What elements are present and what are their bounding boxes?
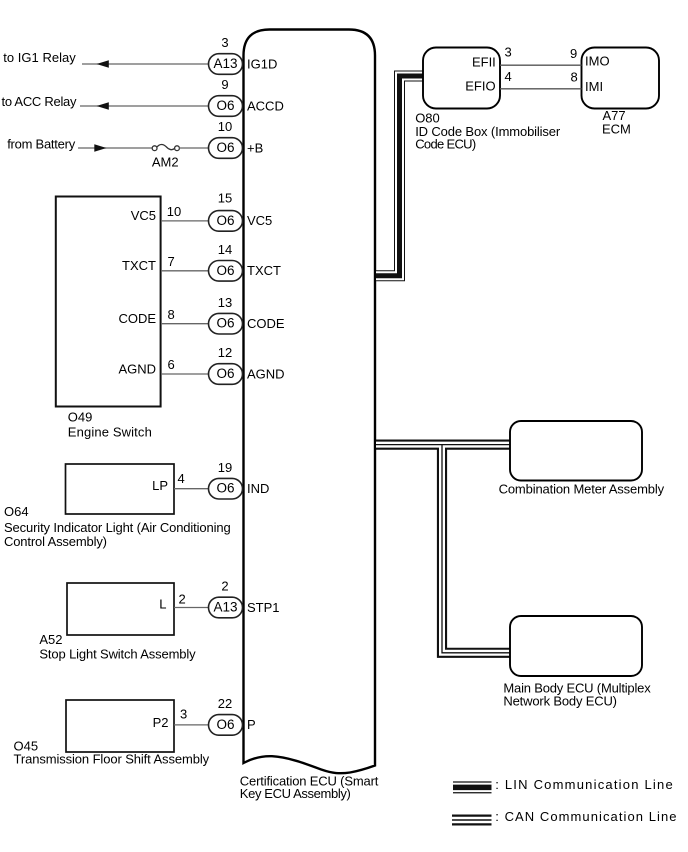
arrow to IG1 Relay (points left) — [97, 60, 109, 67]
svg-text:IND: IND — [247, 481, 269, 496]
svg-text:CODE: CODE — [118, 311, 156, 326]
connector O6 pin 10 (+B) — [209, 138, 243, 159]
svg-text:to ACC Relay: to ACC Relay — [2, 94, 78, 109]
wire EFIO to IMI — [500, 88, 582, 90]
connector O6 pin 22 (P) — [209, 715, 243, 736]
svg-text:O6: O6 — [216, 140, 234, 155]
svg-text:12: 12 — [218, 345, 232, 360]
svg-text:IMO: IMO — [585, 54, 610, 69]
svg-text:Security Indicator Light (Air: Security Indicator Light (Air Conditioni… — [4, 520, 231, 535]
svg-text:2: 2 — [179, 592, 186, 607]
legend LIN swatch: outer black — [453, 781, 492, 793]
svg-text:O6: O6 — [216, 98, 234, 113]
wire CODE — [161, 323, 209, 325]
wire VC5 — [161, 220, 209, 222]
connector O6 pin 14 (TXCT) — [209, 261, 243, 282]
legend LIN swatch: white gap — [453, 783, 492, 793]
svg-text:A13: A13 — [213, 56, 237, 71]
svg-text:10: 10 — [218, 119, 232, 134]
svg-text:O6: O6 — [216, 366, 234, 381]
connector O6 pin 19 (IND) — [209, 478, 243, 499]
svg-text:6: 6 — [168, 357, 175, 372]
svg-text:Key ECU Assembly): Key ECU Assembly) — [240, 786, 351, 801]
svg-text:A13: A13 — [213, 600, 237, 615]
ECU A77 ECM body — [582, 48, 660, 109]
svg-text:O6: O6 — [216, 316, 234, 331]
svg-text:L: L — [159, 597, 166, 612]
svg-text:AGND: AGND — [247, 366, 285, 381]
wire TXCT — [161, 270, 209, 272]
fuse AM2 element — [157, 144, 175, 149]
svg-text:VC5: VC5 — [247, 213, 272, 228]
svg-text:Stop Light Switch Assembly: Stop Light Switch Assembly — [39, 647, 196, 662]
svg-text:ACCD: ACCD — [247, 98, 284, 113]
svg-text:AGND: AGND — [118, 361, 156, 376]
wire LIN bus: center bar — [376, 76, 426, 276]
wire LIN bus: white gap — [376, 76, 426, 276]
wire fuse to +B connector — [179, 147, 208, 149]
svg-text:A52: A52 — [39, 632, 62, 647]
svg-text:AM2: AM2 — [152, 154, 179, 169]
legend LIN swatch: center bar — [453, 785, 492, 791]
svg-text:ECM: ECM — [602, 122, 631, 137]
svg-text:to IG1 Relay: to IG1 Relay — [3, 50, 76, 65]
wire battery to fuse — [78, 147, 152, 149]
arrow to ACC Relay (points left) — [97, 102, 109, 109]
svg-text:3: 3 — [221, 35, 228, 50]
wire EFII to IMO — [500, 64, 582, 66]
svg-text:15: 15 — [218, 191, 232, 206]
svg-text:3: 3 — [180, 707, 187, 722]
svg-text:Code ECU): Code ECU) — [415, 137, 476, 152]
svg-text:9: 9 — [570, 46, 577, 61]
svg-text:4: 4 — [178, 471, 185, 486]
svg-text:19: 19 — [218, 460, 232, 475]
wire LIN bus (Certification ECU to O80): outer black — [376, 76, 426, 276]
svg-text:P: P — [247, 717, 256, 732]
svg-text:8: 8 — [168, 307, 175, 322]
svg-text:22: 22 — [218, 696, 232, 711]
wire CAN bus branch: white gap — [442, 445, 514, 653]
wire CAN bus horizontal: white gap — [376, 442, 514, 448]
svg-text:EFII: EFII — [472, 55, 496, 70]
wire P — [174, 724, 209, 726]
legend CAN swatch: center line — [452, 819, 492, 821]
svg-text:VC5: VC5 — [131, 208, 156, 223]
svg-text:9: 9 — [221, 77, 228, 92]
svg-text:4: 4 — [505, 69, 512, 84]
svg-text:STP1: STP1 — [247, 600, 280, 615]
wire CAN bus branch: center line — [442, 445, 514, 653]
connector O6 pin 15 (VC5) — [209, 211, 243, 232]
svg-text:CODE: CODE — [247, 316, 285, 331]
legend CAN swatch: outer black — [452, 815, 492, 826]
ECU Combination Meter Assembly body — [510, 421, 642, 481]
svg-text:TXCT: TXCT — [122, 258, 156, 273]
svg-text:8: 8 — [571, 70, 578, 85]
svg-text:+B: +B — [247, 140, 263, 155]
svg-text:O6: O6 — [216, 481, 234, 496]
lamp O64 Security Indicator Light body — [66, 464, 175, 514]
switch A52 Stop Light Switch body — [67, 583, 174, 635]
svg-text:P2: P2 — [153, 715, 169, 730]
svg-text:Control Assembly): Control Assembly) — [4, 534, 107, 549]
svg-text:Network Body ECU): Network Body ECU) — [503, 694, 617, 709]
wire CAN bus horizontal: center line — [376, 444, 514, 446]
wire CAN bus branch (junction to Main Body ECU): outer black — [442, 445, 514, 653]
ECU Certification ECU (Smart Key ECU Assembly) body — [244, 30, 376, 774]
connector O6 pin 13 (CODE) — [209, 313, 243, 334]
fuse AM2 left terminal — [152, 146, 157, 151]
svg-text:from Battery: from Battery — [7, 136, 76, 151]
svg-text:Engine Switch: Engine Switch — [68, 424, 152, 439]
svg-text:EFIO: EFIO — [465, 79, 495, 94]
wire ACCD to relay — [80, 105, 209, 107]
wire AGND — [161, 373, 209, 375]
ECU O80 ID Code Box (Immobiliser Code ECU) body — [423, 48, 500, 109]
svg-text:IG1D: IG1D — [247, 56, 277, 71]
svg-text:13: 13 — [218, 295, 232, 310]
svg-text:O6: O6 — [216, 717, 234, 732]
svg-text:2: 2 — [221, 579, 228, 594]
connector O6 pin 9 (ACCD) — [209, 96, 243, 117]
fuse AM2 right terminal — [175, 146, 180, 151]
switch O49 Engine Switch body — [56, 197, 161, 407]
svg-text:IMI: IMI — [585, 79, 603, 94]
ECU Main Body ECU (Multiplex Network Body ECU) body — [510, 616, 642, 676]
wire CAN bus horizontal (Certification ECU to Combination Meter): outer black — [376, 440, 514, 450]
wire IND — [174, 488, 209, 490]
wire STP1 — [174, 607, 209, 609]
arrow from Battery (points right) — [94, 144, 106, 151]
svg-text:TXCT: TXCT — [247, 263, 281, 278]
wire IG1D to relay — [82, 63, 209, 65]
svg-text:Combination Meter Assembly: Combination Meter Assembly — [499, 482, 665, 497]
svg-text:14: 14 — [218, 242, 232, 257]
switch O45 Transmission Floor Shift body — [66, 700, 174, 752]
legend CAN swatch: white gap — [452, 817, 492, 824]
connector A13 pin 2 (STP1) — [209, 597, 243, 618]
connector A13 pin 3 (IG1D) — [209, 54, 243, 75]
svg-text:O64: O64 — [4, 504, 29, 519]
connector O6 pin 12 (AGND) — [209, 364, 243, 385]
svg-text:Transmission Floor Shift Assem: Transmission Floor Shift Assembly — [14, 752, 210, 767]
svg-text:O49: O49 — [68, 410, 93, 425]
svg-text:7: 7 — [168, 254, 175, 269]
svg-text:10: 10 — [167, 204, 181, 219]
svg-text:3: 3 — [505, 45, 512, 60]
svg-text:O6: O6 — [216, 263, 234, 278]
svg-text:O6: O6 — [216, 213, 234, 228]
svg-text:LP: LP — [152, 478, 168, 493]
svg-text:: CAN Communication Line: : CAN Communication Line — [495, 809, 676, 824]
svg-text:: LIN Communication Line: : LIN Communication Line — [495, 777, 673, 792]
